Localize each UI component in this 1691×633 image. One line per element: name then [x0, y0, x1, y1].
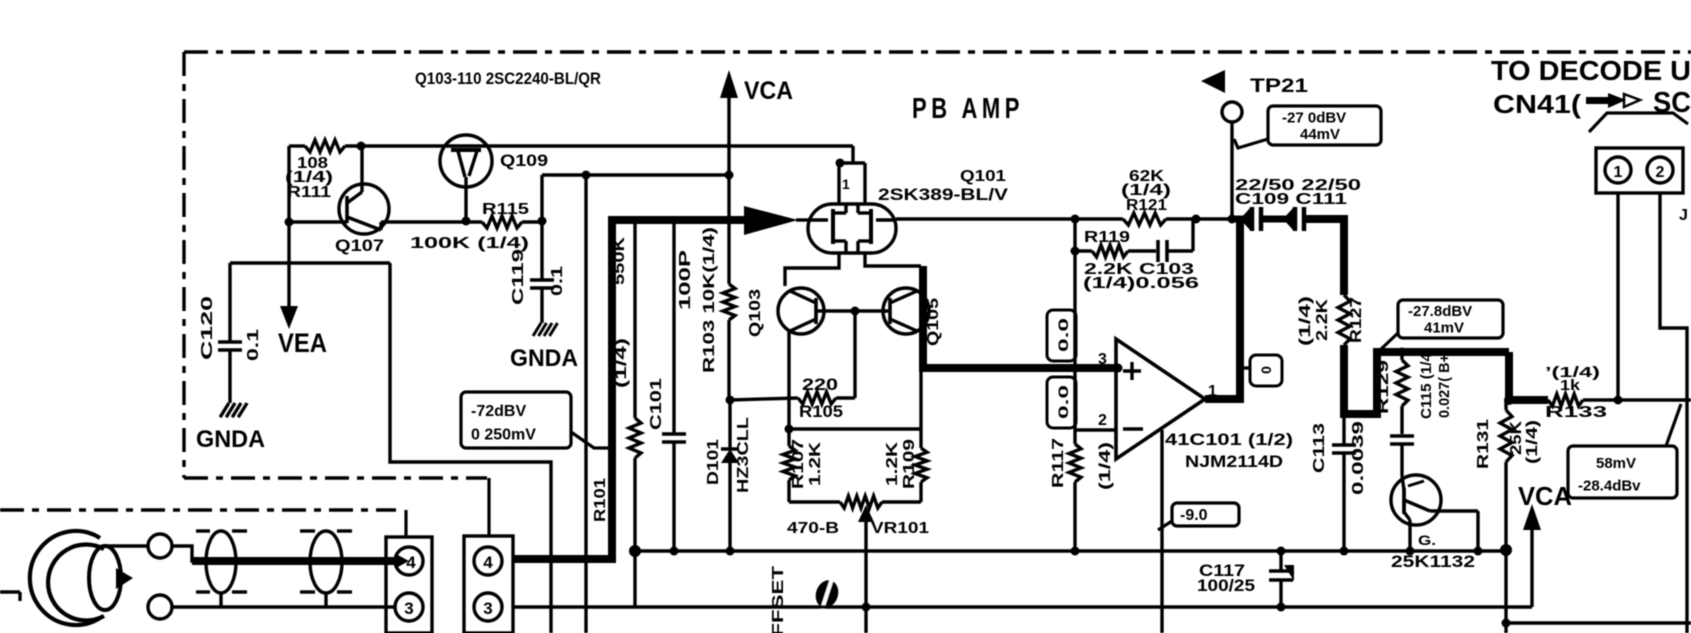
wire op-amp supply down [1160, 430, 1163, 633]
svg-text:0.1: 0.1 [549, 266, 566, 296]
jack plug outer arc [30, 531, 100, 625]
icon signal arrow CN41 [1586, 93, 1640, 108]
svg-text:1.2K: 1.2K [807, 441, 824, 486]
svg-text:100P: 100P [677, 249, 694, 310]
node R117 at bus [1071, 547, 1080, 556]
svg-text:NJM2114D: NJM2114D [1185, 452, 1283, 471]
svg-text:R111: R111 [287, 184, 331, 201]
svg-text:41C101 (1/2): 41C101 (1/2) [1165, 430, 1293, 449]
resistor R101 (550K) [629, 220, 641, 551]
svg-text:100/25: 100/25 [1197, 576, 1255, 595]
svg-text:C120: C120 [199, 296, 216, 360]
svg-text:Q109: Q109 [500, 151, 548, 170]
label Q103-110 2SC2240-BL/QR [415, 69, 601, 88]
label C101 [648, 378, 665, 430]
fet Q101 right half internals [858, 204, 896, 253]
svg-text:220: 220 [802, 375, 838, 394]
svg-text:GNDA: GNDA [510, 345, 578, 372]
connector CN41 box [1596, 148, 1683, 193]
label R127 (1/4) [1297, 296, 1314, 346]
node C101 at bus [670, 547, 679, 556]
label C115 value [1436, 354, 1453, 418]
wire thick Q105 to op-amp pin3 [923, 266, 1118, 368]
label C113 [1311, 423, 1328, 473]
svg-text:VCA: VCA [744, 77, 793, 105]
node C113 at bus [1340, 547, 1349, 556]
callout -9.0 [1158, 503, 1239, 530]
frame: dash-dot shield border top [184, 50, 1691, 53]
transistor Q103 [778, 288, 824, 334]
svg-text:R133: R133 [1545, 404, 1607, 421]
svg-text:25K1132: 25K1132 [1391, 552, 1475, 571]
wire bus riser x635 [633, 551, 636, 607]
transistor Q109 [440, 135, 492, 221]
svg-text:GNDA: GNDA [196, 426, 265, 453]
svg-text:44mV: 44mV [1300, 126, 1340, 143]
label R127 value [1314, 298, 1331, 341]
resistor R105 (220) [730, 392, 836, 404]
jack plug tip [89, 546, 133, 610]
label C101 100P [677, 249, 694, 310]
diode D101 HZ3CLL [721, 400, 739, 551]
op-amp plus sign [1123, 362, 1141, 380]
label R111 value [285, 155, 333, 201]
node C117 lower [1277, 603, 1286, 612]
svg-text:1k: 1k [1560, 377, 1581, 394]
transistor Q105 [883, 288, 929, 334]
label Q109 [500, 151, 548, 170]
wire thick after C111 [1304, 219, 1344, 295]
label R109 value [884, 441, 901, 486]
label R131 [1475, 419, 1492, 469]
node R131 at lower wire [1502, 619, 1511, 628]
wire VEA shield box top [230, 261, 390, 264]
svg-text:-28.4dBv: -28.4dBv [1578, 477, 1641, 494]
node R129 top [1398, 348, 1407, 357]
node R107 top [785, 425, 794, 434]
node VCA (bottom supply arrow) [1518, 481, 1572, 607]
node base link center [851, 307, 860, 316]
svg-text:58mV: 58mV [1596, 455, 1636, 472]
resistor R129 [1396, 352, 1408, 434]
jack plug inner arc [48, 545, 104, 621]
label SC [1653, 87, 1691, 119]
label 62K (1/4) [1121, 182, 1171, 199]
capacitor C101 (100P) [662, 220, 686, 551]
wire Q107 emitter line [381, 220, 482, 223]
node R133 out at pin1 wire [1504, 395, 1623, 405]
node R121 right [1192, 215, 1201, 224]
fet Q101 left half internals [808, 204, 846, 253]
svg-text:470-B: 470-B [787, 520, 839, 537]
connector CN1 pin 3 [395, 593, 423, 621]
svg-text:3: 3 [1098, 351, 1107, 368]
jack contact top [148, 534, 172, 558]
label C119 [510, 249, 527, 305]
label R103 10K(1/4) [701, 227, 718, 373]
connector CN1 pin 4 [395, 547, 423, 575]
label GNDA (C119) [510, 345, 578, 372]
label G. [1408, 481, 1436, 548]
label C117 value [1197, 576, 1255, 595]
wire left entry [0, 592, 20, 601]
label 220 [802, 375, 838, 394]
cable shield 2 [300, 531, 352, 607]
node R131 at bus [1500, 544, 1512, 556]
node D101 at bus [726, 547, 735, 556]
label 2.2K C103 [1084, 261, 1194, 278]
frame: dash-dot shield segment to connector CN2 [184, 478, 489, 537]
label R107 [790, 439, 807, 489]
wire analog ground bus [634, 549, 1506, 552]
svg-text:TP21: TP21 [1250, 76, 1309, 97]
wire node F to pin2 [1073, 251, 1076, 430]
svg-text:Q103: Q103 [747, 289, 764, 337]
label C119 value 0.1 [549, 266, 566, 296]
wire base link Q103-Q105 [816, 309, 890, 312]
label Q107 [335, 236, 384, 255]
svg-text:550K: 550K [611, 236, 628, 285]
svg-text:R127: R127 [1348, 297, 1365, 343]
label R101 (1/4) [613, 338, 630, 388]
wire VEA box right side [390, 263, 551, 633]
wire Q101 right source to Q105 [865, 253, 921, 266]
svg-text:VCA: VCA [1518, 481, 1572, 511]
resistor R117 [1069, 430, 1081, 551]
svg-text:VR101: VR101 [871, 520, 929, 537]
svg-text:(1/4): (1/4) [1297, 296, 1314, 346]
svg-text:2SK389-BL/V: 2SK389-BL/V [878, 185, 1009, 204]
label R131 25K [1508, 420, 1525, 455]
label J4 [1679, 207, 1688, 224]
svg-text:0: 0 [1258, 366, 1274, 374]
capacitor C113 (0.0039) [1332, 414, 1356, 551]
wire CN41 pin1 down [1616, 193, 1619, 400]
svg-text:Q103-110 2SC2240-BL/QR: Q103-110 2SC2240-BL/QR [415, 69, 601, 88]
capacitor C109 (22/50) [1240, 207, 1261, 231]
node Q107 collector to rail [357, 142, 366, 151]
label Q105 [925, 298, 942, 346]
connector CN41 pin 2 [1647, 157, 1673, 183]
label 62K [1129, 168, 1165, 185]
node FET gate at bus [1474, 547, 1483, 556]
node riser top [629, 545, 641, 557]
node pin3 junction [1114, 364, 1123, 373]
label R131 (1/4) [1524, 420, 1541, 464]
wire emitter rail [789, 427, 921, 430]
label D101 [705, 439, 722, 485]
wire VEA arrow [280, 222, 298, 329]
svg-text:0.027( B+: 0.027( B+ [1436, 354, 1453, 418]
label CN41( [1493, 89, 1581, 119]
svg-text:0.0: 0.0 [1055, 385, 1071, 419]
testpoint TP21 circle [1222, 102, 1242, 219]
svg-text:D101: D101 [705, 439, 722, 485]
node R101 at bus [631, 547, 640, 556]
svg-text:1: 1 [1614, 164, 1623, 181]
label 470-B [787, 520, 839, 537]
label VEA [278, 328, 327, 358]
wire rail from R111 to Q101 drains [345, 146, 853, 163]
callout 0.0 at pin2 [1047, 377, 1076, 428]
svg-text:C109 C111: C109 C111 [1235, 191, 1347, 208]
connector CN2 pin 4 [474, 547, 502, 575]
callout -27.8dBV 41mV [1379, 300, 1503, 351]
svg-text:2: 2 [1098, 412, 1107, 429]
label HZ3CLL [735, 417, 752, 493]
resistor R119 (2.2K 1/4) [1075, 245, 1156, 257]
svg-text:R101: R101 [592, 478, 609, 522]
capacitor C119 (0.1) [530, 221, 554, 323]
label R121 [1126, 197, 1167, 214]
resistor R107 (1.2K) [783, 429, 795, 502]
wire bottom right rail [1506, 621, 1691, 624]
wire thick shielded center conductor [192, 557, 397, 565]
svg-text:-9.0: -9.0 [1180, 507, 1208, 524]
svg-text:R105: R105 [799, 402, 843, 421]
svg-text:25K: 25K [1508, 420, 1525, 455]
svg-text:Q105: Q105 [925, 298, 942, 346]
svg-text:3: 3 [483, 599, 492, 618]
connector CN41 pin 1 [1605, 157, 1631, 183]
label C120 value 0.1 [245, 329, 262, 361]
label R105 [799, 402, 843, 421]
svg-text:J: J [1679, 207, 1688, 224]
svg-text:(1/4): (1/4) [1097, 442, 1114, 490]
wire pin2 [1075, 428, 1116, 431]
potentiometer VR101 (470-B) [789, 496, 921, 508]
callout -72dBV 0 250mV [461, 392, 609, 448]
label 2SK389-BL/V [878, 185, 1009, 204]
svg-text:(1/4): (1/4) [613, 338, 630, 388]
label R119 [1084, 229, 1130, 246]
label TP21 [1250, 76, 1309, 97]
svg-text:-27.8dBV: -27.8dBV [1408, 303, 1472, 320]
fet Q101 2SK389 package [808, 204, 896, 253]
node feedback F [1071, 215, 1080, 224]
svg-text:4: 4 [406, 553, 416, 572]
label OFFSET [770, 566, 787, 633]
node VCA line junction [725, 171, 734, 180]
wire bottom contact to pin3 [172, 605, 396, 608]
jack contact bottom [148, 595, 172, 619]
svg-text:(1/4): (1/4) [1524, 420, 1541, 464]
wire base node to R105 [836, 311, 855, 398]
icon offset zero [812, 575, 843, 612]
node R115 right / C119 top [538, 217, 547, 226]
resistor R115 (100K 1/4) [482, 216, 542, 228]
label pin3 [1098, 351, 1107, 368]
resistor R103 (10K 1/4) [723, 175, 735, 400]
wire jack tip to contact [104, 544, 148, 547]
frame: dash-dot shield segment to connector CN1 [0, 510, 406, 538]
connector CN1 box [386, 537, 432, 633]
svg-text:2.2K: 2.2K [1314, 298, 1331, 341]
fet Q111 2SK1132 [1391, 475, 1478, 551]
svg-text:PB AMP: PB AMP [912, 93, 1024, 125]
svg-text:R121: R121 [1126, 197, 1167, 214]
transistor Q107 [289, 146, 389, 234]
callout 0 at output [1240, 355, 1282, 386]
wire thick op-amp output [1205, 219, 1240, 399]
label R133 (1/4) [1545, 364, 1600, 381]
svg-text:Q101: Q101 [960, 168, 1006, 185]
wire Q101 right gate to feedback node [896, 217, 1123, 220]
label R101 [592, 478, 609, 522]
capacitor C120 (0.1) [218, 263, 242, 403]
label C109 C111 [1235, 191, 1347, 208]
wire lower return bus [513, 605, 1532, 608]
label R129 [1375, 360, 1392, 414]
callout -27 0dBV 44mV [1234, 106, 1381, 148]
label GNDA (C120) [196, 426, 265, 453]
svg-text:TO DECODE U: TO DECODE U [1491, 55, 1691, 86]
label 2SK1132 [1391, 552, 1475, 571]
op-amp U1 41C101 triangle [1116, 339, 1205, 459]
capacitor C103 (0.056) [1158, 219, 1193, 262]
label R115 [482, 201, 529, 218]
svg-text:-27 0dBV: -27 0dBV [1282, 110, 1346, 127]
svg-text:OFFSET: OFFSET [770, 566, 787, 633]
node TP21 junction [1228, 215, 1237, 224]
label C115 (1/4 [1418, 352, 1435, 419]
frame: dash-dot shield border left [182, 52, 185, 478]
wire thick R127 to C113 elbow [1344, 345, 1509, 414]
label R101 550K [611, 236, 628, 285]
node D101 top [726, 396, 735, 405]
label pin 1 Q101 [842, 176, 850, 192]
label Q103 [747, 289, 764, 337]
svg-text:0.1: 0.1 [245, 329, 262, 361]
wire thick input signal path [513, 220, 744, 559]
resistor R131 (25K 1/4) [1500, 400, 1512, 633]
svg-text:R119: R119 [1084, 229, 1130, 246]
svg-text:CN41(: CN41( [1493, 89, 1581, 119]
svg-text:R109: R109 [901, 439, 918, 489]
wire contact to shielded line [172, 546, 198, 561]
node Q109 emitter at R115 [462, 217, 471, 226]
label R133 1k [1560, 377, 1581, 394]
svg-text:41mV: 41mV [1424, 319, 1464, 336]
svg-text:1: 1 [842, 176, 850, 192]
label NJM2114D [1185, 452, 1283, 471]
label R109 [901, 439, 918, 489]
svg-text:VEA: VEA [278, 328, 327, 358]
capacitor C117 (100/25) [1269, 551, 1294, 607]
svg-text:R107: R107 [790, 439, 807, 489]
wire thick down to R133 level [1509, 352, 1548, 400]
label pin2 [1098, 412, 1107, 429]
cable shield 1 [196, 531, 247, 607]
svg-text:0 250mV: 0 250mV [471, 427, 536, 444]
testpoint TP21 triangle [1201, 70, 1225, 93]
capacitor C115 (0.027 1/4) [1390, 436, 1414, 476]
svg-text:-72dBV: -72dBV [471, 403, 526, 420]
label C120 [199, 296, 216, 360]
icon connector brace [1589, 113, 1688, 132]
wire R111 left leg down to Q107 base node [287, 146, 290, 222]
wire Q103 emitter down [787, 331, 790, 429]
label (1/4)0.056 [1083, 275, 1199, 292]
capacitor C111 (22/50) [1261, 207, 1304, 231]
wire Q101 left source to Q103 [785, 253, 839, 286]
label Q101 [960, 168, 1006, 185]
svg-text:G.: G. [1418, 532, 1436, 548]
svg-text:2: 2 [1656, 164, 1665, 181]
resistor R121 (62K 1/4) [1123, 213, 1248, 225]
node FET source at bus [1406, 547, 1415, 556]
svg-text:C115 (1/4: C115 (1/4 [1418, 352, 1435, 419]
label C113 value [1350, 421, 1367, 495]
label R115 value [410, 235, 529, 252]
wire Q105 emitter down [919, 331, 922, 429]
node C117 upper [1277, 547, 1286, 556]
label R117 (1/4) [1097, 442, 1114, 490]
label R127 [1348, 297, 1365, 343]
callout 58mV -28.4dBv [1568, 404, 1681, 498]
svg-text:R103 10K(1/4): R103 10K(1/4) [701, 227, 718, 373]
svg-text:R129: R129 [1375, 360, 1392, 414]
label TO DECODE U [1491, 55, 1691, 86]
connector CN2 box [464, 536, 513, 633]
label 41C101 (1/2) [1165, 430, 1293, 449]
ground GNDA at C120 [220, 403, 247, 417]
svg-text:C113: C113 [1311, 423, 1328, 473]
svg-text:(1/4)0.056: (1/4)0.056 [1083, 275, 1199, 292]
ground GNDA at C119 [533, 323, 558, 336]
wire riser from R115 node to upper wire [542, 175, 729, 221]
svg-text:HZ3CLL: HZ3CLL [735, 417, 752, 493]
signal arrow into Q101 gate [744, 206, 810, 235]
label 22/50 22/50 [1235, 177, 1361, 194]
wire node F down [1073, 219, 1076, 251]
wire Q101 drain bracket [836, 159, 866, 205]
svg-text:3: 3 [404, 599, 413, 618]
svg-text:1.2K: 1.2K [884, 441, 901, 486]
svg-text:R117: R117 [1050, 438, 1067, 488]
svg-text:C101: C101 [648, 378, 665, 430]
svg-text:0.0039: 0.0039 [1350, 421, 1367, 495]
resistor R109 (1.2K) [915, 429, 927, 502]
label R117 [1050, 438, 1067, 488]
label VR101 [871, 520, 929, 537]
node Q107 base junction [285, 218, 294, 227]
svg-text:Q107: Q107 [335, 236, 384, 255]
wire CN41 pin2 down [1660, 193, 1687, 633]
node VCA (top supply arrow) [720, 70, 793, 176]
svg-text:R131: R131 [1475, 419, 1492, 469]
node R119 corner [1071, 247, 1080, 256]
svg-text:0.0: 0.0 [1055, 318, 1071, 352]
label R133 [1545, 404, 1607, 421]
node branch x586 [582, 171, 591, 180]
wire VR101 wiper [858, 505, 874, 633]
callout 0.0 at pin3 [1047, 310, 1076, 361]
label pin1 [1208, 383, 1217, 400]
node VR101 wiper at lower bus [862, 603, 871, 612]
wire branch x586 down [584, 175, 587, 633]
svg-text:R115: R115 [482, 201, 529, 218]
resistor R111 (108 1/4) [289, 140, 345, 152]
op-amp minus sign [1123, 427, 1143, 430]
resistor R127 (2.2K 1/4) [1338, 295, 1350, 345]
svg-text:4: 4 [483, 553, 493, 572]
svg-text:C119: C119 [510, 249, 527, 305]
label C117 [1199, 561, 1245, 580]
connector CN2 pin 3 [474, 593, 502, 621]
resistor R133 (1k 1/4) [1548, 394, 1691, 406]
label PB AMP [912, 93, 1024, 125]
